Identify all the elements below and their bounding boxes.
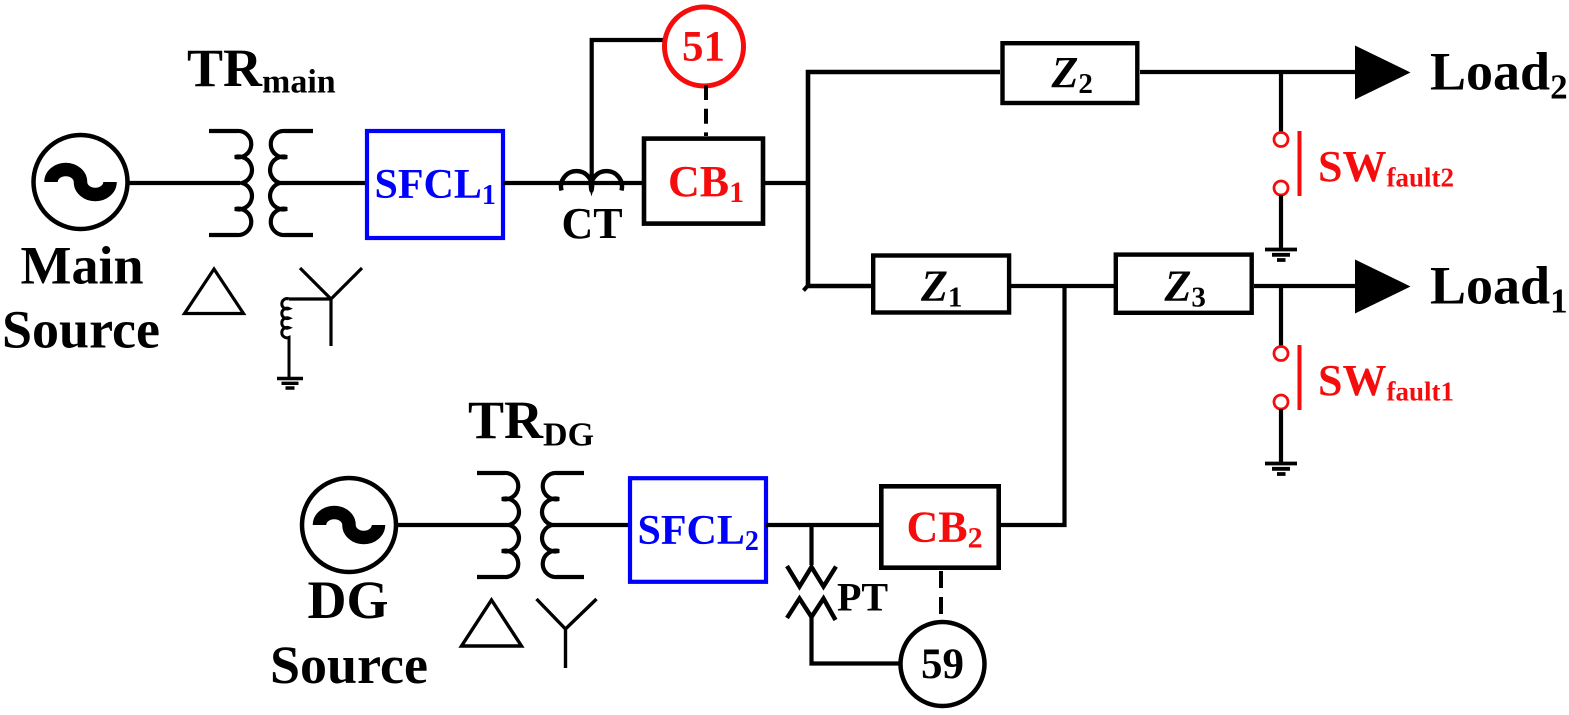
CT (current transformer): [561, 171, 622, 190]
AC source: DG Source: [302, 478, 396, 572]
wire: PT to relay 59: [812, 615, 902, 664]
wire: tap to SW_fault2: [1279, 72, 1283, 132]
delta symbol (TR_main primary): [185, 269, 244, 314]
transformer TR_main secondary winding: [270, 131, 313, 235]
delta symbol (TR_DG primary): [462, 600, 522, 646]
svg-text:CB2: CB2: [907, 503, 983, 555]
transformer TR_main primary winding: [209, 131, 252, 235]
impedance Z2 box: [1003, 43, 1138, 103]
switch SW_fault1 (open): [1274, 345, 1300, 410]
junction nub at bus corner: [804, 286, 808, 291]
PT (potential transformer): [787, 566, 836, 620]
relay 51: [665, 7, 744, 86]
svg-text:PT: PT: [837, 575, 888, 620]
wire: tap to SW_fault1: [1279, 286, 1283, 346]
switch SW_fault2 (open): [1274, 131, 1300, 196]
wire: Z3 to Load1: [1254, 284, 1360, 288]
svg-text:SWfault2: SWfault2: [1318, 142, 1454, 193]
svg-text:TRmain: TRmain: [187, 38, 336, 101]
wire: CT to relay 51: [592, 40, 666, 184]
wire: SW_fault1 to ground: [1279, 409, 1283, 463]
wire: Main Source to TR_main: [126, 181, 240, 185]
wye symbol (TR_DG secondary): [537, 599, 597, 668]
SFCL1 box: [367, 131, 503, 238]
label Main Source: [2, 236, 160, 360]
CT center cusp: [589, 186, 595, 197]
AC source: Main Source: [34, 135, 128, 229]
wire: SW_fault2 to ground: [1279, 195, 1283, 249]
grounding reactor coil: [282, 299, 289, 377]
wye symbol (TR_main secondary): [289, 268, 362, 346]
svg-text:Z3: Z3: [1164, 262, 1206, 314]
svg-text:SWfault1: SWfault1: [1318, 356, 1454, 407]
wire: SFCL2 to CB2: [766, 523, 881, 527]
svg-text:Source: Source: [2, 300, 160, 360]
ground (SW_fault1): [1265, 464, 1297, 475]
impedance Z1 box: [873, 256, 1009, 313]
svg-text:DG: DG: [308, 570, 389, 630]
svg-text:51: 51: [682, 24, 725, 71]
circuit breaker CB2 box: [881, 486, 998, 567]
SFCL2 box: [630, 478, 766, 582]
transformer TR_DG primary winding: [477, 473, 519, 577]
ground (SW_fault2): [1265, 250, 1297, 261]
svg-text:Load1: Load1: [1430, 256, 1568, 321]
svg-text:Z2: Z2: [1051, 48, 1093, 100]
wire: CB1 to feeder bus: [764, 181, 810, 185]
transformer TR_DG secondary winding: [542, 473, 584, 577]
bus: vertical feeder bus: [808, 72, 1000, 286]
label DG Source: [270, 570, 428, 695]
svg-text:Source: Source: [270, 635, 428, 695]
wire: DG tie (Z1/Z3 node to CB2): [1001, 286, 1065, 525]
wire: TR_main to SFCL1: [280, 181, 367, 185]
wire: PT tap: [809, 525, 813, 565]
dashed control line: relay 51 to CB1: [704, 85, 708, 136]
wire: DG Source to TR_DG: [396, 523, 509, 527]
wire: Z2 to Load2: [1140, 70, 1360, 74]
svg-text:TRDG: TRDG: [468, 390, 594, 454]
impedance Z3 box: [1116, 255, 1252, 313]
svg-text:Main: Main: [20, 236, 143, 296]
load arrow Load1: [1355, 260, 1411, 314]
load arrow Load2: [1355, 46, 1411, 100]
svg-text:59: 59: [921, 641, 964, 688]
svg-text:Load2: Load2: [1430, 42, 1568, 107]
wire: SFCL1 to CB1: [503, 181, 646, 185]
ground (TR_main neutral): [277, 379, 303, 389]
wire: Z1 to Z3: [1011, 284, 1114, 288]
svg-text:CB1: CB1: [668, 157, 744, 209]
svg-text:Z1: Z1: [920, 262, 962, 314]
svg-text:CT: CT: [561, 199, 622, 248]
circuit breaker CB1 box: [644, 139, 763, 224]
dashed control line: CB2 to relay 59: [939, 571, 943, 622]
svg-text:SFCL1: SFCL1: [375, 162, 496, 211]
relay 59: [901, 622, 985, 706]
svg-text:SFCL2: SFCL2: [638, 508, 759, 557]
wire: TR_DG to SFCL2: [552, 523, 630, 527]
